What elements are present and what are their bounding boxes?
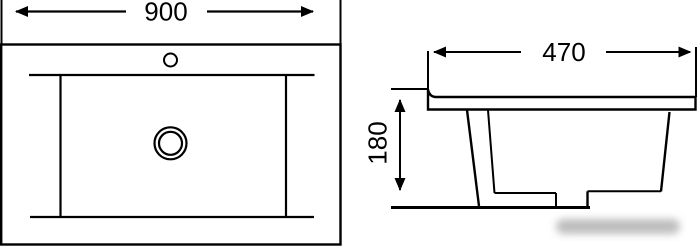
svg-text:180: 180 [363,121,393,164]
basin left wall line [59,75,61,217]
arrowhead 470 right [679,47,692,58]
dimension line 900 left segment [16,10,126,12]
drain stub left edge [555,193,557,207]
top view outer rim rectangle [1,45,340,245]
180 dimension vertical line [399,100,401,190]
dimension line 470 right segment [606,51,690,53]
bowl inner bottom right segment [588,190,662,192]
extension line left (900 dim) [1,0,3,44]
bowl inner bottom left segment [495,192,557,194]
watermark blur [556,219,680,234]
svg-text:900: 900 [144,0,187,27]
extension line right (900 dim) [340,0,342,44]
extension line left (470 dim) [427,51,429,90]
bowl inner left wall [488,110,495,193]
bowl outer right wall [661,112,670,192]
basin deck bottom line [30,216,314,218]
drain inner circle [159,132,182,155]
faucet hole circle [164,54,177,67]
arrowhead 180 bottom [395,178,406,191]
bowl outer left wall [467,110,479,206]
basin right wall line [285,75,287,217]
side view rim outline [428,90,696,110]
ground line [391,206,590,209]
arrowhead 900 right [301,6,314,17]
drain outer circle [155,127,187,159]
drain stub right edge [586,191,588,207]
180 top reference line [391,88,428,90]
svg-text:470: 470 [542,37,585,67]
arrowhead 470 left [433,47,446,58]
dimension line 900 right segment [207,10,313,12]
arrowhead 180 top [395,99,406,112]
arrowhead 900 left [15,6,28,17]
basin deck top line [29,74,315,76]
dimension line 470 left segment [434,51,521,53]
extension line right (470 dim) [695,47,697,97]
